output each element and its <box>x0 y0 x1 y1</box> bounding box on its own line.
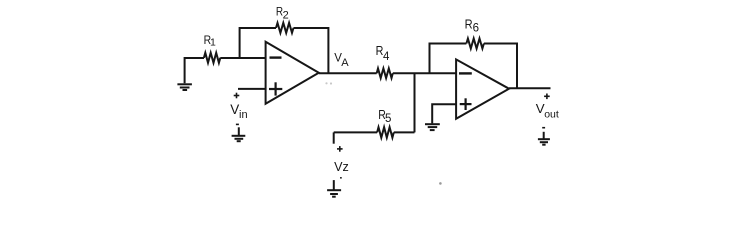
svg-text:4: 4 <box>383 51 390 63</box>
svg-text:in: in <box>239 109 248 121</box>
svg-text:R: R <box>465 16 473 31</box>
svg-text:A: A <box>341 57 349 69</box>
svg-text:1: 1 <box>210 36 216 48</box>
svg-text:out: out <box>544 109 559 121</box>
svg-text:5: 5 <box>385 113 391 125</box>
svg-text:V: V <box>230 102 239 117</box>
svg-text:6: 6 <box>473 23 479 35</box>
svg-text:2: 2 <box>283 9 289 21</box>
svg-text:Vz: Vz <box>334 160 349 174</box>
